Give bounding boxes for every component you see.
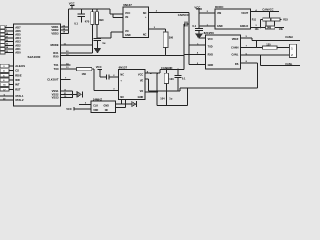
wire VCC to DCDC VIN bbox=[198, 11, 215, 14]
svg-text:ALE/AS: ALE/AS bbox=[15, 64, 25, 68]
svg-text:NC: NC bbox=[143, 12, 147, 15]
wire DCDC GND-O pin 3 bbox=[250, 25, 284, 28]
wire RXD vertical net bbox=[183, 24, 205, 69]
wire U6 right GND bbox=[116, 103, 132, 105]
wire U5 VE pin down to rail bbox=[145, 79, 148, 91]
svg-text:AD5: AD5 bbox=[15, 33, 21, 37]
wire CANL tap to label line bbox=[261, 55, 301, 66]
svg-text:CLKOUT: CLKOUT bbox=[47, 78, 59, 82]
wire RD/E bbox=[9, 74, 14, 76]
wire VSS3 pin 15 bbox=[61, 96, 73, 98]
pin labels right side inside U1 bbox=[47, 25, 59, 100]
wire U2 anode to CANVCC/TXD net bbox=[149, 11, 190, 17]
resistor R1 470 pullup bbox=[85, 9, 94, 25]
wire VSS bus bbox=[72, 91, 77, 98]
svg-text:VCC: VCC bbox=[125, 12, 130, 15]
svg-text:AD3: AD3 bbox=[15, 40, 21, 44]
wire AD5 bbox=[5, 34, 14, 36]
wire CANH pin 7 bbox=[241, 41, 263, 49]
svg-text:1u: 1u bbox=[102, 41, 105, 45]
node AD6 pin 1 bbox=[0, 29, 8, 32]
capacitor C7 0.1 on CANGND bbox=[175, 69, 186, 91]
wire R11 left leg down to GND-O bbox=[260, 19, 261, 28]
svg-text:104: 104 bbox=[160, 97, 165, 101]
svg-text:VSS3: VSS3 bbox=[52, 96, 59, 100]
ground below C5 bbox=[195, 34, 203, 39]
wire XTAL1 pin 9 bbox=[0, 94, 24, 98]
svg-text:AD0: AD0 bbox=[15, 51, 21, 55]
wire VDD2 pin 12 bbox=[61, 29, 69, 31]
node AD4 pin 27 bbox=[0, 36, 9, 39]
wire R3 to opto2 LED bbox=[92, 69, 119, 91]
node CS pin 4 bbox=[0, 69, 9, 73]
wire AD1 bbox=[5, 48, 14, 50]
svg-text:CANL: CANL bbox=[231, 54, 238, 57]
svg-text:GND: GND bbox=[208, 64, 214, 67]
wire VDD1 pin 22 bbox=[61, 25, 69, 27]
wire U6 CLK left stub bbox=[79, 103, 91, 105]
wire R6 bottom to RX line bbox=[165, 47, 167, 56]
wire DCDC GND pin 1 bbox=[198, 24, 215, 26]
wire VCC rail bbox=[72, 8, 110, 9]
node AD5 pin 28 bbox=[0, 33, 9, 36]
wire XTAL2 pin 10 bbox=[0, 98, 24, 102]
svg-text:NC: NC bbox=[120, 74, 124, 77]
svg-text:CANGND: CANGND bbox=[161, 66, 173, 70]
svg-text:TXD: TXD bbox=[208, 46, 213, 49]
wire isolated ground rail A bbox=[148, 90, 180, 91]
node AD2 pin 25 bbox=[0, 44, 9, 47]
svg-text:82C250: 82C250 bbox=[204, 31, 215, 35]
svg-text:CANH: CANH bbox=[231, 47, 238, 50]
crystal Y1 24M bbox=[266, 21, 275, 30]
wire RST bbox=[9, 88, 14, 90]
svg-text:RX1: RX1 bbox=[53, 51, 59, 55]
resistor R12 bbox=[271, 18, 288, 22]
wire U6 NC stub bbox=[116, 107, 126, 109]
node AD0 pin 23 bbox=[0, 51, 9, 54]
svg-text:XTAL2: XTAL2 bbox=[15, 98, 24, 102]
wire CANVCC tap down bbox=[269, 11, 270, 20]
svg-text:0.1: 0.1 bbox=[192, 24, 196, 28]
capacitor C4 between TXD/RXD verticals bbox=[184, 22, 190, 27]
wire WR bbox=[9, 79, 14, 81]
resistor R2 390 pullup bbox=[95, 9, 104, 25]
pin number labels for U4 left bbox=[197, 36, 199, 64]
wire VDD3 pin 18 bbox=[61, 32, 69, 34]
svg-text:CANL: CANL bbox=[285, 62, 293, 66]
svg-text:GND: GND bbox=[125, 34, 131, 37]
node WR pin 6 bbox=[0, 78, 9, 82]
node INT pin 16 bbox=[0, 83, 9, 87]
svg-text:CANVCC: CANVCC bbox=[178, 13, 189, 17]
svg-text:VDD: VDD bbox=[93, 109, 98, 112]
connector J1 CAN bbox=[290, 44, 297, 57]
svg-text:470: 470 bbox=[85, 19, 90, 23]
svg-text:TX0: TX0 bbox=[54, 67, 59, 71]
power VCC symbol at U5 input bbox=[96, 65, 102, 77]
svg-text:120: 120 bbox=[266, 42, 271, 46]
svg-text:CLK: CLK bbox=[93, 104, 98, 107]
wire R1 bottom to MODE and RX1 bbox=[92, 25, 93, 53]
svg-text:10k: 10k bbox=[279, 28, 284, 31]
ground sideways at VSS bbox=[77, 91, 82, 97]
svg-text:CS: CS bbox=[15, 69, 19, 73]
svg-text:VIN: VIN bbox=[217, 12, 221, 15]
svg-text:VCC: VCC bbox=[66, 107, 72, 111]
svg-text:AD7: AD7 bbox=[15, 25, 21, 29]
wire TX1 pin 14 stub bbox=[61, 62, 71, 65]
wire CANL pin 6 bbox=[241, 53, 290, 56]
svg-text:RX0: RX0 bbox=[53, 54, 59, 58]
resistor R4 120 termination bbox=[263, 42, 290, 49]
capacitor C5 0.1 VCC decoupling bbox=[192, 13, 203, 34]
wire MODE pin 11 bbox=[61, 43, 93, 45]
op-amp U6 oscillator module 24MHZ bbox=[91, 97, 116, 112]
svg-text:R33: R33 bbox=[283, 19, 288, 22]
wire VREF pin 5 to CANH label line bbox=[241, 35, 301, 41]
wire CLKOUT pin 7 stub bbox=[61, 78, 71, 80]
op-amp U1 CAN controller SJA1000 body bbox=[14, 24, 61, 106]
svg-text:INT: INT bbox=[15, 83, 20, 87]
node AD7 pin 2 bbox=[0, 26, 8, 29]
wire AD0 bbox=[5, 52, 14, 54]
node AD1 pin 24 bbox=[0, 46, 9, 50]
wire GND2 pin of transceiver bbox=[189, 45, 206, 65]
ground below C2 bbox=[94, 48, 102, 54]
svg-text:103: 103 bbox=[169, 77, 174, 81]
svg-text:XTAL1: XTAL1 bbox=[15, 94, 24, 98]
op-amp U2 optocoupler 6N137 top bbox=[123, 3, 149, 37]
svg-text:AD4: AD4 bbox=[15, 36, 21, 40]
svg-text:VE: VE bbox=[140, 79, 144, 82]
node ALE/AS pin 3 bbox=[0, 64, 9, 68]
svg-text:GND: GND bbox=[217, 25, 223, 28]
wire CANGND rail bbox=[160, 66, 184, 70]
svg-text:DCDC: DCDC bbox=[215, 5, 224, 9]
svg-text:CANH: CANH bbox=[285, 35, 293, 39]
op-amp U5 optocoupler 6N137 bottom bbox=[118, 66, 145, 100]
wire U2 VE pin bbox=[113, 14, 123, 18]
wire VDD bus up to VCC rail bbox=[68, 9, 72, 33]
node RST pin 17 bbox=[0, 88, 9, 92]
capacitor C6 at U5 anode bbox=[100, 74, 119, 79]
svg-text:CANVCC: CANVCC bbox=[262, 8, 273, 12]
wire VSS1 pin 8 bbox=[61, 90, 73, 92]
svg-text:AD6: AD6 bbox=[15, 29, 21, 33]
svg-text:VO: VO bbox=[140, 90, 144, 93]
wire U4 VCC pin 3 bbox=[199, 37, 206, 39]
svg-text:VCC: VCC bbox=[96, 65, 102, 69]
svg-text:390: 390 bbox=[169, 36, 174, 40]
wire VSS2 pin 21 bbox=[61, 93, 73, 95]
node AD3 pin 26 bbox=[0, 40, 9, 43]
power VCC symbol near DCDC bbox=[194, 5, 201, 13]
op-amp U3 DC-DC converter bbox=[215, 5, 251, 29]
svg-text:10k: 10k bbox=[255, 28, 260, 31]
wire U5 VO pin to vertical bbox=[145, 73, 158, 105]
pin labels AD7..AD0 inside U1 bbox=[15, 25, 21, 54]
power VCC symbol top left of rail bbox=[69, 1, 75, 9]
wire AD2 bbox=[5, 44, 14, 46]
svg-text:TX1: TX1 bbox=[54, 63, 59, 67]
svg-text:NC: NC bbox=[105, 109, 109, 112]
svg-text:GND: GND bbox=[138, 96, 144, 99]
wire U5 VCC pin right side bbox=[145, 69, 160, 74]
wire U2 cathode lower pin bbox=[149, 27, 166, 32]
svg-text:0.1: 0.1 bbox=[182, 76, 186, 80]
wire RX0 pin 19 to RXD bbox=[61, 54, 185, 56]
node RD/E pin 5 bbox=[0, 74, 9, 78]
svg-text:24M: 24M bbox=[267, 27, 272, 30]
svg-text:MODE: MODE bbox=[50, 43, 58, 47]
wire RS pin 8 slope network bbox=[180, 61, 258, 91]
resistor R5 103 on CANGND bbox=[164, 69, 174, 91]
svg-text:6N137: 6N137 bbox=[123, 3, 132, 7]
wire DCDC VOUT pin 4 CANVCC bbox=[250, 8, 279, 12]
wire isolated ground rail B bbox=[157, 88, 187, 105]
wire RX1 pin 20 bbox=[61, 51, 93, 53]
svg-text:VOUT: VOUT bbox=[241, 12, 248, 15]
svg-text:VCC: VCC bbox=[208, 38, 213, 41]
svg-text:SJA1000: SJA1000 bbox=[28, 55, 41, 59]
pin labels control bus inside U1 bbox=[15, 64, 25, 91]
svg-text:WR: WR bbox=[15, 78, 20, 82]
svg-text:6N137: 6N137 bbox=[119, 66, 128, 70]
resistor R3 160 in TX path bbox=[77, 68, 92, 77]
capacitor C1 0.1 on VCC rail bbox=[74, 9, 85, 25]
wire vertical between rails bbox=[166, 91, 167, 106]
svg-text:NC: NC bbox=[120, 96, 124, 99]
wire TX0 pin 13 bbox=[61, 67, 77, 69]
wire AD4 bbox=[5, 37, 14, 39]
wire AD7 bbox=[5, 26, 14, 28]
svg-text:RXD: RXD bbox=[208, 54, 213, 57]
svg-text:VDD3: VDD3 bbox=[51, 31, 59, 35]
svg-text:RD/E: RD/E bbox=[15, 73, 22, 77]
wire CS bbox=[9, 70, 14, 72]
wire INT bbox=[9, 84, 14, 86]
wire R2 bottom node bbox=[97, 25, 123, 39]
capacitor C2 1u to ground bbox=[94, 38, 106, 47]
resistor R6 390 pulldown on RXD bbox=[163, 32, 173, 48]
wire U2 VCC pin from rail bbox=[110, 9, 123, 14]
svg-text:AD1: AD1 bbox=[15, 47, 21, 51]
svg-text:GND-O: GND-O bbox=[240, 25, 248, 28]
wire AD6 bbox=[5, 30, 14, 32]
svg-text:24MHZ: 24MHZ bbox=[93, 97, 102, 101]
svg-text:RST: RST bbox=[15, 87, 21, 91]
svg-text:R11: R11 bbox=[252, 19, 257, 22]
wire TXD vertical net bbox=[188, 13, 205, 46]
power VCC at U6 VDD bbox=[66, 107, 91, 111]
svg-text:AD2: AD2 bbox=[15, 43, 21, 47]
resistor R11 bbox=[252, 18, 271, 22]
svg-text:GND: GND bbox=[104, 104, 110, 107]
svg-text:390: 390 bbox=[99, 18, 104, 22]
svg-text:NC: NC bbox=[143, 33, 147, 36]
svg-text:VCC: VCC bbox=[138, 74, 143, 77]
wire ALE/AS bbox=[9, 65, 14, 67]
ground sideways at U6 bbox=[132, 101, 137, 107]
svg-text:1u: 1u bbox=[169, 97, 172, 101]
svg-text:RS: RS bbox=[235, 63, 239, 66]
svg-text:VREF: VREF bbox=[232, 38, 239, 41]
wire AD3 bbox=[5, 41, 14, 43]
op-amp U4 CAN transceiver 82C250 bbox=[204, 31, 241, 69]
svg-text:VO: VO bbox=[125, 30, 129, 33]
svg-text:0.1: 0.1 bbox=[74, 21, 78, 25]
svg-text:VE: VE bbox=[125, 16, 129, 19]
wire U5 GND pin down bbox=[121, 100, 126, 108]
svg-text:160: 160 bbox=[82, 72, 87, 76]
